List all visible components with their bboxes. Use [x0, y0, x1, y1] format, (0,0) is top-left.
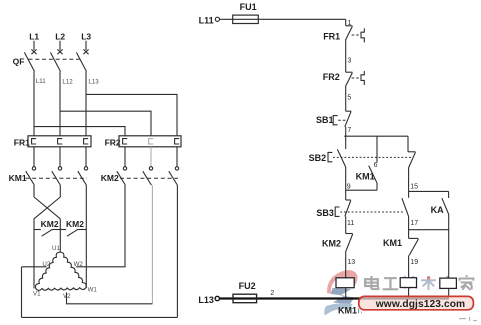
wire top corner down	[345, 19, 347, 26]
wire coil KM1 to rail	[345, 288, 347, 299]
wire branch pole3 to FR2 right	[86, 94, 177, 136]
KM1 blade pole 3	[78, 171, 87, 185]
svg-text:19: 19	[410, 259, 418, 266]
wire left stub to SB2	[345, 136, 347, 149]
svg-text:KM2: KM2	[322, 238, 341, 248]
wire phase W1 vertical	[85, 185, 87, 288]
pin number 1	[348, 20, 352, 27]
contactor KM1 label	[9, 173, 27, 183]
node label L13	[88, 78, 99, 85]
node 15 rail to KA	[409, 190, 449, 192]
breaker QF blade pole 3	[76, 52, 86, 71]
FR1 heater element 1	[32, 139, 37, 144]
wire phase V1 vertical	[33, 219, 35, 289]
KM2 blade pole 3	[169, 171, 178, 185]
contactor KM2 label	[101, 173, 119, 183]
thermal contact FR1 label	[323, 31, 340, 41]
bottom rail thick	[220, 297, 449, 299]
phase label L2	[55, 31, 65, 41]
svg-text:L3: L3	[81, 31, 91, 41]
svg-text:SB1: SB1	[316, 115, 334, 125]
motor terminal label V2	[63, 293, 71, 300]
SB3 dashed link long	[340, 211, 404, 213]
stop button SB1 NC	[345, 111, 352, 127]
motor terminal label U2	[42, 261, 50, 268]
svg-text:17: 17	[410, 220, 418, 227]
svg-text:3: 3	[347, 57, 351, 64]
KM2 shorting row label right	[66, 219, 84, 229]
SB1 actuator	[333, 116, 337, 125]
thermal relay FR1 label	[14, 138, 30, 148]
node label L11	[36, 78, 46, 85]
svg-text:W1: W1	[88, 286, 98, 293]
node 7 rail	[344, 135, 408, 137]
svg-text:KA: KA	[431, 205, 444, 215]
KM2 row blade 2	[67, 229, 78, 236]
wire phase U1 vertical	[59, 219, 61, 252]
KM2 blade pole 1	[117, 171, 126, 185]
wire branch pole1 to FR2 left	[34, 127, 125, 136]
wire branch pole2 to FR2 mid	[60, 111, 151, 136]
svg-text:V1: V1	[33, 291, 41, 298]
wire L2 lead-in	[59, 41, 61, 50]
KM2 blade pole 2	[143, 171, 152, 185]
pin number 5	[347, 94, 351, 101]
motor terminal label W1	[88, 286, 98, 293]
wire SB1 to node7	[345, 127, 347, 136]
coil label KM1	[338, 306, 362, 316]
stop button SB3 label	[316, 208, 334, 218]
svg-text:9: 9	[347, 183, 351, 190]
wire FR2-1 to KM2	[124, 147, 126, 167]
svg-text:SB2: SB2	[309, 153, 327, 163]
wire KA down	[448, 215, 450, 279]
svg-text:FR1: FR1	[323, 31, 340, 41]
pin number 9	[347, 183, 351, 190]
stop button SB1 label	[316, 115, 334, 125]
svg-text:11: 11	[347, 220, 354, 227]
FR2 heater element 3	[175, 139, 180, 144]
watermark corner mark	[459, 317, 477, 321]
start button SB2 label	[309, 153, 327, 163]
svg-text:V2: V2	[63, 293, 71, 300]
svg-text:L13: L13	[88, 78, 99, 85]
terminal x mark L2	[57, 49, 62, 54]
svg-text:7: 7	[347, 127, 351, 134]
watermark logo blue lower swoosh	[324, 303, 352, 315]
SB2 actuator	[328, 152, 332, 161]
wire coil KM2 to rail	[408, 288, 410, 299]
SB3 actuator	[335, 207, 339, 216]
FR1 trip element	[361, 28, 364, 42]
KM1 linkage dashed	[25, 177, 87, 179]
start button SB2 NO blade	[337, 149, 345, 167]
self-hold contact KM1 label	[356, 171, 375, 181]
svg-text:6: 6	[374, 162, 378, 169]
thermal contact FR2 label	[323, 72, 340, 82]
KM1 contact circle 3	[84, 167, 87, 170]
interlock KM2 label	[322, 238, 341, 248]
wire right branch node17 down	[408, 216, 410, 238]
wire FR2 to SB1	[345, 87, 347, 112]
KM1 contact circle 1	[32, 167, 35, 170]
FR1 heater element 3	[84, 139, 89, 144]
pin number 3	[347, 57, 351, 64]
SB2 second contact	[408, 152, 416, 168]
breaker QF blade pole 1	[24, 52, 34, 71]
wire L1 lead-in	[33, 41, 35, 50]
watermark logo blue zigzag	[331, 288, 355, 304]
svg-text:L1: L1	[29, 31, 39, 41]
wire SB3 to KM2 interlock	[345, 216, 347, 233]
thermal contact FR2 NC	[345, 72, 352, 86]
coil KM2	[400, 278, 416, 288]
watermark gray text shu	[421, 276, 436, 290]
wire FR1-3 to KM1	[85, 147, 87, 167]
FR2 heater element 2 gray	[149, 139, 154, 144]
terminal circle L13	[215, 296, 219, 300]
coil KM1	[336, 278, 354, 288]
fuse FU1 box	[233, 15, 259, 23]
thermal relay FR2 label	[105, 138, 121, 148]
svg-text:FU2: FU2	[239, 281, 256, 291]
svg-text:www.dgjs123.com: www.dgjs123.com	[375, 299, 465, 310]
wire KM1 pole1 down	[33, 185, 35, 197]
watermark banner url text	[375, 299, 465, 310]
wire KM2 pole3 down	[176, 185, 178, 317]
pin number 11	[347, 220, 354, 227]
phase label L3	[81, 31, 91, 41]
SB3 second contact NO blade	[402, 198, 409, 216]
crossover diagonal 2	[34, 197, 60, 219]
svg-text:L11: L11	[199, 16, 214, 26]
motor terminal label U1	[52, 245, 60, 252]
wire QF pole1 to FR1	[33, 72, 35, 137]
terminal label L13	[198, 295, 214, 305]
watermark gray text dian	[365, 276, 378, 289]
svg-text:5: 5	[347, 94, 351, 101]
motor terminal label V1	[33, 291, 41, 298]
motor winding delta	[35, 252, 86, 290]
wire right branch to node15	[408, 168, 410, 198]
wire QF pole2 to FR1	[59, 72, 61, 137]
terminal x mark L1	[31, 49, 36, 54]
fuse FU1 label	[240, 2, 257, 12]
middle branch bottom rail	[346, 189, 377, 191]
wire SB2 to node9	[345, 167, 347, 200]
wire V2 run	[67, 292, 153, 303]
thermal relay FR1 box	[28, 136, 91, 147]
wire bottom run to U2 riser	[22, 316, 178, 318]
crossover diagonal 1	[34, 197, 60, 219]
svg-text:KM2: KM2	[66, 219, 84, 229]
svg-text:KM1: KM1	[338, 306, 357, 316]
wire FR1-2 to KM1	[59, 147, 61, 167]
motor terminal label W2	[74, 261, 84, 268]
interlock contact KM2 NC	[346, 234, 353, 252]
wire FR2-2 to KM2 gray	[150, 147, 152, 167]
wire QF pole3 to FR1	[85, 72, 87, 137]
wire middle stub down	[376, 136, 378, 162]
pin number 13	[347, 259, 355, 266]
watermark red dot on shu	[427, 276, 430, 279]
KM2 contact circle 1	[123, 167, 126, 170]
pin number 6	[374, 162, 378, 169]
self-hold contact KM1 NO blade	[369, 166, 377, 183]
terminal label L11	[199, 16, 214, 26]
svg-text:FR2: FR2	[323, 72, 340, 82]
watermark gray text zhi	[441, 276, 454, 288]
thermal relay FR2 box	[119, 136, 181, 147]
interlock KM1 label right	[383, 238, 402, 248]
breaker QF blade pole 2	[50, 52, 60, 71]
KM2 shorting row label left	[41, 219, 59, 229]
wire U2 left riser	[21, 267, 23, 318]
breaker QF label	[13, 57, 25, 67]
stop button SB3 NC	[345, 200, 351, 216]
wire FR2-3 to KM2	[176, 147, 178, 167]
svg-text:KM2: KM2	[41, 219, 59, 229]
wire KM1 pole2 down	[59, 185, 61, 197]
KM2 contact circle 2	[149, 167, 152, 170]
watermark logo red crescent	[327, 270, 358, 293]
svg-text:2: 2	[270, 290, 274, 297]
svg-text:L12: L12	[62, 78, 73, 85]
node 17 rail to KA branch	[409, 229, 449, 231]
KM1 contact circle 2	[58, 167, 61, 170]
FR2 trip dashed link	[352, 77, 361, 79]
pin number 7	[347, 127, 351, 134]
relay contact KA label	[431, 205, 444, 215]
terminal x mark L3	[83, 49, 88, 54]
FR1 heater element 2	[58, 139, 63, 144]
KM2 row blade 1	[42, 229, 53, 236]
KM1 blade pole 1	[26, 171, 35, 185]
FR1 trip dashed link	[352, 34, 361, 36]
pin number 17	[410, 220, 418, 227]
watermark gray text ji	[401, 276, 417, 289]
wire FR1-1 to KM1	[33, 147, 35, 167]
KM2 linkage dashed	[120, 177, 178, 179]
terminal circle L11	[215, 17, 219, 21]
pin number 15	[410, 184, 418, 191]
fuse FU2 box	[233, 294, 257, 303]
svg-text:KM2: KM2	[101, 173, 119, 183]
coil KA	[440, 278, 457, 288]
svg-text:KM1: KM1	[383, 238, 402, 248]
svg-text:KM1: KM1	[9, 173, 27, 183]
wire top rail	[220, 18, 346, 20]
svg-text:L2: L2	[55, 31, 65, 41]
SB2 dashed link long	[333, 156, 413, 158]
pin number 2	[270, 290, 274, 297]
KM2 contact circle 3	[175, 167, 178, 170]
wire right stub node7 down	[407, 136, 409, 152]
interlock contact KM1 NC	[409, 238, 419, 255]
breaker QF linkage dashed	[29, 58, 81, 60]
FR2 heater element 1	[123, 139, 128, 144]
KM2 row wire seg3	[78, 229, 87, 231]
wire W2 to KM2 pole1	[76, 185, 125, 267]
watermark gray text jia	[460, 275, 474, 290]
wire U2 horizontal	[22, 266, 47, 268]
KM2 row wire seg1	[34, 229, 41, 231]
svg-text:FU1: FU1	[240, 2, 257, 12]
wire KM2 to coil KM1	[345, 252, 347, 278]
svg-text:U1: U1	[52, 245, 60, 252]
SB1 dashed link	[338, 119, 345, 121]
wire L3 lead-in	[85, 41, 87, 50]
FR2 trip element	[361, 71, 364, 85]
watermark red banner	[359, 296, 474, 309]
svg-text:15: 15	[410, 184, 418, 191]
svg-text:L11: L11	[36, 78, 46, 85]
svg-text:L13: L13	[198, 295, 214, 305]
wire KM2 pole2 to V2 gray	[151, 185, 152, 304]
KM1 blade pole 2	[52, 171, 61, 185]
wire coil KA to rail	[448, 288, 450, 298]
relay contact KA NO	[442, 191, 449, 214]
wire KM1 NC to coil	[408, 255, 410, 277]
svg-text:QF: QF	[13, 57, 25, 67]
wire KM1 aux down	[376, 183, 378, 190]
wire FR1 to FR2	[345, 40, 347, 72]
svg-text:13: 13	[347, 259, 355, 266]
thermal contact FR1 NC	[345, 26, 352, 40]
phase label L1	[29, 31, 39, 41]
fuse FU2 label	[239, 281, 256, 291]
watermark gray text gong	[383, 278, 399, 289]
node label L12	[62, 78, 73, 85]
pin number 19	[410, 259, 418, 266]
svg-text:SB3: SB3	[316, 208, 334, 218]
KM2 row wire seg2	[52, 229, 66, 231]
